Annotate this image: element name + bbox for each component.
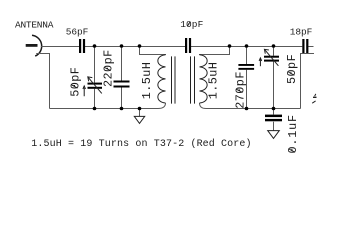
wire ground stub left bbox=[139, 109, 141, 117]
node dot top 50pF-left bbox=[93, 44, 97, 48]
wire primary top stub bbox=[140, 47, 166, 56]
wire branch C-50pF-right bottom bbox=[273, 62, 275, 109]
transformer T1 primary core lines bbox=[171, 56, 173, 103]
node dot rail 50pF-left bbox=[93, 107, 97, 111]
node dot top secondary bbox=[228, 44, 232, 48]
variable capacitor C6 50pF right plates bbox=[264, 56, 279, 58]
output terminal marks bbox=[312, 94, 316, 103]
wire branch C-50pF-left top bbox=[94, 47, 96, 83]
wire secondary bottom lead bbox=[200, 103, 207, 109]
svg-text:18pF: 18pF bbox=[290, 27, 313, 38]
wire branch 270pF bottom bbox=[246, 70, 248, 109]
ground right bbox=[268, 131, 280, 139]
variable capacitor C6 trim arrow bbox=[259, 58, 261, 66]
variable capacitor C2 arrow bbox=[88, 77, 102, 94]
wire ground rail right bbox=[206, 108, 301, 110]
wire rail to primary bottom lead bbox=[158, 103, 166, 109]
svg-text:50pF: 50pF bbox=[285, 54, 299, 84]
node dot top 50pF-right bbox=[272, 44, 276, 48]
svg-text:ANTENNA: ANTENNA bbox=[15, 20, 54, 31]
node dot rail 270pF bbox=[245, 107, 249, 111]
variable capacitor C6 arrow bbox=[264, 49, 278, 66]
wire ground rail left bbox=[50, 108, 159, 110]
wire 0.1uF stub top bbox=[273, 109, 275, 115]
transformer T1 secondary core lines bbox=[190, 56, 192, 103]
svg-text:1.5uH: 1.5uH bbox=[206, 62, 220, 100]
wire branch 220pF bottom bbox=[121, 88, 123, 109]
wire branch C-50pF-left bottom bbox=[94, 89, 96, 109]
node dot rail 220pF bbox=[120, 107, 124, 111]
wire secondary top stub bbox=[200, 47, 230, 56]
node dot rail 50pF-right bbox=[272, 107, 276, 111]
wire branch 220pF top bbox=[121, 47, 123, 81]
node dot top primary bbox=[138, 44, 142, 48]
wire 0.1uF stub to ground bbox=[273, 122, 275, 131]
transformer T1 secondary winding 1.5uH bbox=[200, 55, 208, 103]
svg-text:1.5uH: 1.5uH bbox=[140, 62, 154, 100]
capacitor C1 56pF plates bbox=[79, 39, 81, 53]
wire 56pF to node A bbox=[85, 46, 185, 48]
svg-text:270pF: 270pF bbox=[233, 71, 247, 109]
svg-text:56pF: 56pF bbox=[66, 27, 89, 38]
capacitor C4 10pF plates bbox=[185, 38, 187, 53]
svg-text:1.5uH = 19 Turns on T37-2 (Red: 1.5uH = 19 Turns on T37-2 (Red Core) bbox=[31, 138, 251, 150]
variable capacitor C2 50pF left plates bbox=[88, 83, 103, 85]
node dot top 220pF bbox=[120, 44, 124, 48]
antenna center pin bbox=[26, 44, 38, 47]
svg-text:220pF: 220pF bbox=[102, 49, 116, 87]
svg-text:0.1uF: 0.1uF bbox=[286, 114, 300, 153]
wire branch 270pF top bbox=[246, 47, 248, 65]
capacitor C5 270pF plates bbox=[238, 64, 254, 66]
wire antenna shield drop bbox=[36, 54, 49, 109]
ground left bbox=[134, 116, 144, 123]
node dot top 270pF bbox=[245, 44, 249, 48]
capacitor C7 18pF plates bbox=[302, 39, 304, 53]
capacitor C8 0.1uF plates bbox=[265, 115, 282, 118]
wire 18pF to output pin bbox=[308, 46, 313, 48]
wire output shield stub bbox=[301, 54, 315, 109]
svg-text:50pF: 50pF bbox=[68, 67, 82, 97]
capacitor C3 220pF plates bbox=[114, 81, 130, 83]
slashed zero marks bbox=[72, 22, 296, 153]
wire top main bbox=[41, 46, 79, 48]
antenna J1 connector arc bbox=[32, 35, 42, 56]
variable capacitor C2 trim arrow bbox=[83, 86, 85, 96]
svg-text:10pF: 10pF bbox=[180, 19, 203, 30]
wire branch C-50pF-right top bbox=[273, 47, 275, 56]
node dot rail ground left bbox=[138, 107, 142, 111]
transformer T1 primary winding 1.5uH bbox=[158, 55, 207, 104]
wire 10pF to 18pF bbox=[191, 46, 302, 48]
